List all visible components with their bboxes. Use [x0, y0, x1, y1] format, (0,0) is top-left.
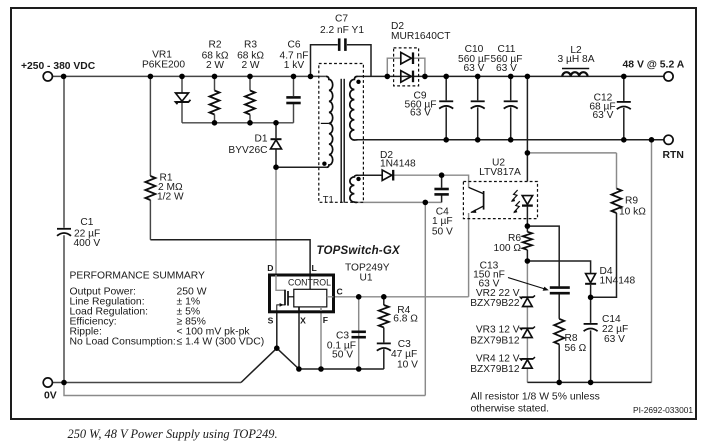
- svg-text:All resistor 1/8 W 5% unless: All resistor 1/8 W 5% unless: [471, 392, 600, 403]
- svg-text:63 V: 63 V: [604, 334, 625, 345]
- svg-text:63 V: 63 V: [593, 110, 614, 121]
- svg-text:1/2 W: 1/2 W: [157, 192, 184, 203]
- svg-text:LTV817A: LTV817A: [479, 167, 521, 178]
- svg-text:C: C: [337, 287, 343, 297]
- svg-text:63 V: 63 V: [496, 63, 517, 74]
- svg-text:400 V: 400 V: [74, 238, 101, 249]
- svg-text:VR3 12 V: VR3 12 V: [476, 325, 520, 336]
- svg-text:2.2 nF Y1: 2.2 nF Y1: [320, 25, 364, 36]
- svg-text:10 kΩ: 10 kΩ: [619, 207, 646, 218]
- svg-text:S: S: [268, 316, 274, 326]
- svg-text:2 W: 2 W: [241, 60, 259, 71]
- svg-text:CONTROL: CONTROL: [288, 278, 331, 288]
- svg-text:3 µH 8A: 3 µH 8A: [557, 54, 594, 65]
- svg-text:BZX79B12: BZX79B12: [470, 364, 520, 375]
- svg-text:BZX79B22: BZX79B22: [470, 298, 520, 309]
- svg-text:1N4148: 1N4148: [600, 276, 636, 287]
- svg-text:R3: R3: [244, 40, 257, 51]
- svg-text:T1: T1: [323, 193, 334, 204]
- svg-text:2 W: 2 W: [206, 60, 224, 71]
- svg-text:R2: R2: [208, 40, 221, 51]
- svg-text:RTN: RTN: [663, 150, 684, 161]
- svg-text:1N4148: 1N4148: [380, 159, 416, 170]
- svg-text:F: F: [323, 315, 328, 325]
- svg-text:MUR1640CT: MUR1640CT: [391, 31, 450, 42]
- svg-text:P6KE200: P6KE200: [142, 60, 185, 71]
- svg-text:D1: D1: [254, 134, 267, 145]
- svg-text:50 V: 50 V: [432, 227, 453, 238]
- svg-text:63 V: 63 V: [410, 108, 431, 119]
- svg-text:D: D: [267, 263, 273, 273]
- svg-text:BZX79B12: BZX79B12: [470, 336, 520, 347]
- svg-text:C7: C7: [335, 14, 348, 25]
- svg-text:250 W, 48 V Power Supply using: 250 W, 48 V Power Supply using TOP249.: [68, 427, 278, 441]
- svg-text:+250 - 380 VDC: +250 - 380 VDC: [21, 61, 96, 72]
- svg-text:U1: U1: [360, 273, 373, 284]
- svg-text:R9: R9: [625, 196, 638, 207]
- svg-text:50 V: 50 V: [332, 350, 353, 361]
- svg-text:PERFORMANCE SUMMARY: PERFORMANCE SUMMARY: [70, 271, 206, 282]
- svg-text:PI-2692-033001: PI-2692-033001: [633, 405, 693, 415]
- svg-text:VR4 12 V: VR4 12 V: [476, 354, 520, 365]
- svg-text:≤ 1.4 W (300 VDC): ≤ 1.4 W (300 VDC): [177, 337, 265, 348]
- svg-text:1 kV: 1 kV: [284, 60, 305, 71]
- svg-text:C6: C6: [287, 40, 300, 51]
- svg-text:otherwise stated.: otherwise stated.: [471, 404, 550, 415]
- svg-text:No Load Consumption:: No Load Consumption:: [70, 337, 176, 348]
- svg-text:63 V: 63 V: [464, 63, 485, 74]
- svg-text:0V: 0V: [44, 391, 57, 402]
- svg-text:6.8 Ω: 6.8 Ω: [393, 314, 418, 325]
- svg-text:47 µF: 47 µF: [391, 349, 417, 360]
- svg-text:X: X: [300, 316, 306, 326]
- svg-text:TOPSwitch-GX: TOPSwitch-GX: [317, 245, 401, 257]
- svg-text:L: L: [312, 263, 317, 273]
- svg-text:48 V @ 5.2 A: 48 V @ 5.2 A: [623, 60, 685, 71]
- svg-text:C1: C1: [80, 217, 93, 228]
- svg-text:1 µF: 1 µF: [432, 216, 453, 227]
- svg-text:10 V: 10 V: [397, 360, 418, 371]
- svg-text:56 Ω: 56 Ω: [565, 343, 587, 354]
- svg-text:100 Ω: 100 Ω: [494, 243, 522, 254]
- svg-text:BYV26C: BYV26C: [228, 145, 267, 156]
